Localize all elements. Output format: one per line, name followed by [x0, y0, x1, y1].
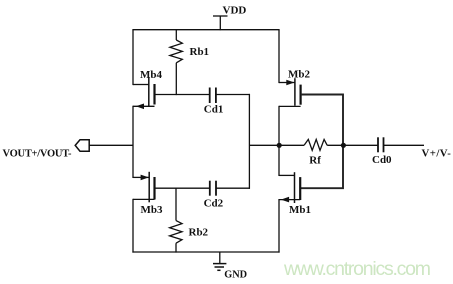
- wire left rail upper: [132, 30, 134, 85]
- wire Mb2 source lead: [279, 105, 301, 107]
- wire left rail lower: [132, 199, 134, 253]
- wire Mb1 source lead with arrow: [279, 197, 300, 203]
- capacitor Cd2: [210, 181, 216, 196]
- resistor Rb1: [170, 30, 182, 95]
- capacitor Cd0: [378, 137, 384, 152]
- resistor Rb2: [170, 188, 182, 252]
- VDD power symbol: [213, 16, 228, 30]
- wire Mb2 gate lead with arrow: [279, 80, 295, 86]
- wire middle vertical rail: [248, 94, 250, 189]
- svg-text:Rf: Rf: [309, 155, 321, 167]
- wire node B to Cd0: [343, 144, 378, 146]
- svg-text:Rb1: Rb1: [190, 46, 210, 58]
- svg-text:Cd0: Cd0: [372, 154, 392, 166]
- svg-text:V+/V-: V+/V-: [422, 147, 452, 159]
- svg-text:Cd1: Cd1: [204, 103, 224, 115]
- transistor Mb2: [295, 78, 301, 106]
- wire right rail upper: [278, 30, 280, 83]
- transistor Mb4: [149, 77, 155, 107]
- svg-text:Rb2: Rb2: [189, 227, 209, 239]
- wire Mb3 gate lead with arrow: [133, 175, 149, 181]
- wire Mb2 drain to Mb1 drain (right loop): [300, 95, 343, 189]
- resistor Rf: [279, 139, 343, 150]
- node B junction dot: [341, 143, 346, 148]
- capacitor Cd1: [210, 88, 216, 104]
- node A junction dot: [277, 143, 282, 148]
- svg-text:Mb1: Mb1: [289, 204, 311, 216]
- transistor Mb1: [295, 172, 301, 203]
- wire Mb1 gate lead: [279, 174, 295, 176]
- wire right rail lower: [278, 199, 280, 253]
- ground symbol: [213, 252, 226, 270]
- wire right rail middle: [278, 106, 280, 176]
- svg-text:VOUT+/VOUT-: VOUT+/VOUT-: [3, 149, 73, 160]
- transistor Mb3: [149, 172, 154, 203]
- wire Mb4 gate lead: [133, 84, 149, 86]
- svg-text:GND: GND: [224, 270, 247, 281]
- wire Mb4 source lead with arrow: [133, 104, 155, 110]
- wire bottom rail: [132, 251, 279, 253]
- wire top rail: [132, 29, 279, 31]
- svg-text:VDD: VDD: [223, 5, 247, 17]
- wire Mb3 drain lead: [155, 187, 210, 189]
- wire Cd0 to output: [384, 144, 425, 146]
- svg-text:Mb3: Mb3: [141, 204, 164, 216]
- svg-text:Cd2: Cd2: [204, 197, 224, 209]
- output port VOUT: [75, 140, 133, 151]
- svg-text:www.cntronics.com: www.cntronics.com: [283, 258, 431, 280]
- svg-text:Mb4: Mb4: [140, 69, 163, 81]
- wire Mb4 drain lead: [155, 94, 210, 96]
- wire middle branch to node: [249, 144, 279, 146]
- svg-text:Mb2: Mb2: [288, 69, 311, 81]
- wire Mb3 source lead: [133, 198, 155, 200]
- wire left rail middle: [132, 106, 134, 178]
- wire Cd2 to middle rail: [216, 187, 250, 189]
- wire Cd1 to middle rail: [216, 94, 250, 96]
